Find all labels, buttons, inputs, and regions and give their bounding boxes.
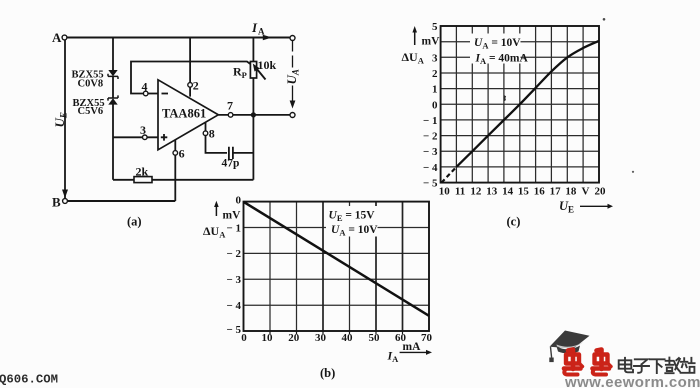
char zi <box>634 359 649 373</box>
svg-text:4: 4 <box>142 80 148 94</box>
svg-text:A: A <box>258 27 265 37</box>
svg-text:20: 20 <box>595 186 607 198</box>
svg-text:(a): (a) <box>127 215 142 229</box>
graph b y-axis labels <box>226 195 241 336</box>
svg-text:− 5: − 5 <box>423 178 438 190</box>
node A <box>52 30 67 45</box>
op-amp U1 TAA861 <box>158 80 218 150</box>
svg-text:6: 6 <box>179 147 185 161</box>
graph c x-axis unit U_E with arrow <box>559 199 613 215</box>
svg-text:5: 5 <box>432 21 438 33</box>
arrow on left wire above B <box>62 190 68 199</box>
zener diode D1 BZX55 C0V8 <box>72 70 119 90</box>
svg-text:I: I <box>251 20 258 35</box>
svg-text:3: 3 <box>432 52 438 64</box>
svg-text:www.eeworm.com: www.eeworm.com <box>564 374 700 388</box>
svg-text:− 4: − 4 <box>423 162 438 174</box>
logo url www.eeworm.com <box>564 374 700 388</box>
wire / label U_A dashed right side <box>290 41 296 109</box>
char zai <box>665 358 680 374</box>
graph c inner annotation <box>470 34 529 67</box>
graph c curve <box>442 41 599 183</box>
svg-text:Q606.COM: Q606.COM <box>0 373 58 387</box>
graph c grid <box>441 26 599 183</box>
wire zener branch vertical <box>112 38 114 180</box>
wire top rail <box>67 37 290 39</box>
graph c x-axis labels <box>439 186 606 198</box>
svg-text:20: 20 <box>288 332 300 344</box>
svg-text:2k: 2k <box>136 165 149 179</box>
label (c) <box>507 215 521 229</box>
label (b) <box>320 366 335 380</box>
char xia <box>650 359 665 373</box>
capacitor C1 47p <box>222 147 254 170</box>
svg-text:C5V6: C5V6 <box>78 106 104 117</box>
wire pin 4 to pot <box>131 62 251 94</box>
logo character chong 2 <box>593 350 612 375</box>
graph b inner annotation <box>326 206 378 238</box>
pin 8 <box>203 127 215 141</box>
svg-text:18: 18 <box>565 186 577 198</box>
svg-text:16: 16 <box>534 186 546 198</box>
svg-text:B: B <box>52 195 61 210</box>
svg-text:− 1: − 1 <box>423 115 438 127</box>
graph b x-axis labels <box>241 332 432 344</box>
svg-text:50: 50 <box>369 332 381 344</box>
pin 6 <box>173 147 185 161</box>
svg-text:47p: 47p <box>222 158 240 170</box>
svg-text:12: 12 <box>470 186 482 198</box>
svg-text:UA = 10V: UA = 10V <box>331 224 378 238</box>
svg-text:11: 11 <box>455 186 465 198</box>
svg-text:0: 0 <box>432 99 438 111</box>
label (a) <box>127 215 142 229</box>
svg-text:− 2: − 2 <box>226 248 241 260</box>
svg-text:13: 13 <box>486 186 498 198</box>
pin 4 <box>142 80 149 96</box>
pin 2 <box>188 79 199 93</box>
arrow I_A on top rail <box>251 20 272 40</box>
svg-text:(c): (c) <box>507 215 521 229</box>
svg-text:2: 2 <box>193 79 199 93</box>
graph c y-axis labels <box>423 21 438 190</box>
wire B rail <box>68 200 176 202</box>
svg-text:10: 10 <box>439 186 451 198</box>
svg-text:TAA861: TAA861 <box>162 107 206 121</box>
svg-text:70: 70 <box>421 332 433 344</box>
potentiometer Rp 10k with vertical wire <box>233 38 277 180</box>
svg-text:UE = 15V: UE = 15V <box>329 209 376 223</box>
terminal circle top right <box>290 36 295 41</box>
char zhan <box>681 358 695 373</box>
watermark Q606.COM <box>0 373 58 387</box>
svg-text:15: 15 <box>518 186 530 198</box>
wire pin 3 <box>113 136 158 138</box>
logo character chong 1 <box>564 350 583 375</box>
svg-text:10: 10 <box>262 332 274 344</box>
svg-text:− 4: − 4 <box>226 300 241 312</box>
svg-text:8: 8 <box>209 127 215 141</box>
graph b grid <box>244 202 430 334</box>
svg-text:7: 7 <box>227 99 233 113</box>
svg-text:− 1: − 1 <box>226 222 241 234</box>
svg-text:A: A <box>52 30 62 45</box>
svg-text:2: 2 <box>432 68 438 80</box>
svg-text:mV: mV <box>223 210 242 222</box>
svg-text:− 5: − 5 <box>226 324 241 336</box>
svg-text:1: 1 <box>432 84 438 96</box>
output junction node <box>251 112 256 117</box>
zener diode D2 BZX55 C5V6 <box>73 95 119 117</box>
graph c y-axis arrow and unit <box>402 26 441 66</box>
node B <box>52 195 67 210</box>
pin 7 <box>227 99 233 118</box>
logo text dian zi xia zai zhan <box>619 358 695 374</box>
graph b y-axis arrow and unit <box>203 201 241 240</box>
wire pin 7 output <box>218 114 290 116</box>
svg-text:mV: mV <box>422 36 441 48</box>
svg-text:(b): (b) <box>320 366 335 380</box>
label U_E <box>52 112 69 127</box>
pin 3 <box>140 123 147 140</box>
svg-text:17: 17 <box>550 186 562 198</box>
svg-text:UA = 10V: UA = 10V <box>474 37 521 51</box>
svg-text:30: 30 <box>315 332 327 344</box>
wire pin 2 <box>189 38 191 97</box>
logo graduation cap <box>549 331 589 363</box>
svg-text:− 2: − 2 <box>423 131 438 143</box>
wire pin 6 to B rail <box>174 140 176 201</box>
wire pin 8 to capacitor <box>206 122 228 153</box>
svg-text:40: 40 <box>342 332 354 344</box>
svg-text:C0V8: C0V8 <box>78 79 104 90</box>
svg-text:10k: 10k <box>258 58 277 72</box>
svg-text:0: 0 <box>241 332 247 344</box>
speck artifacts <box>504 18 634 173</box>
svg-text:V: V <box>582 186 590 198</box>
svg-text:14: 14 <box>502 186 514 198</box>
svg-text:3: 3 <box>140 123 146 137</box>
terminal circle bottom right <box>290 113 295 118</box>
char dian <box>619 358 633 373</box>
svg-text:mA: mA <box>403 341 422 353</box>
wire left vertical (input side) <box>64 40 66 199</box>
resistor R1 2k with feedback wire <box>113 165 253 183</box>
svg-text:− 3: − 3 <box>226 274 241 286</box>
svg-text:− 3: − 3 <box>423 146 438 158</box>
svg-text:0: 0 <box>236 195 242 207</box>
graph b curve <box>244 202 430 316</box>
graph b x-axis unit mA and I_A arrow <box>387 341 433 364</box>
